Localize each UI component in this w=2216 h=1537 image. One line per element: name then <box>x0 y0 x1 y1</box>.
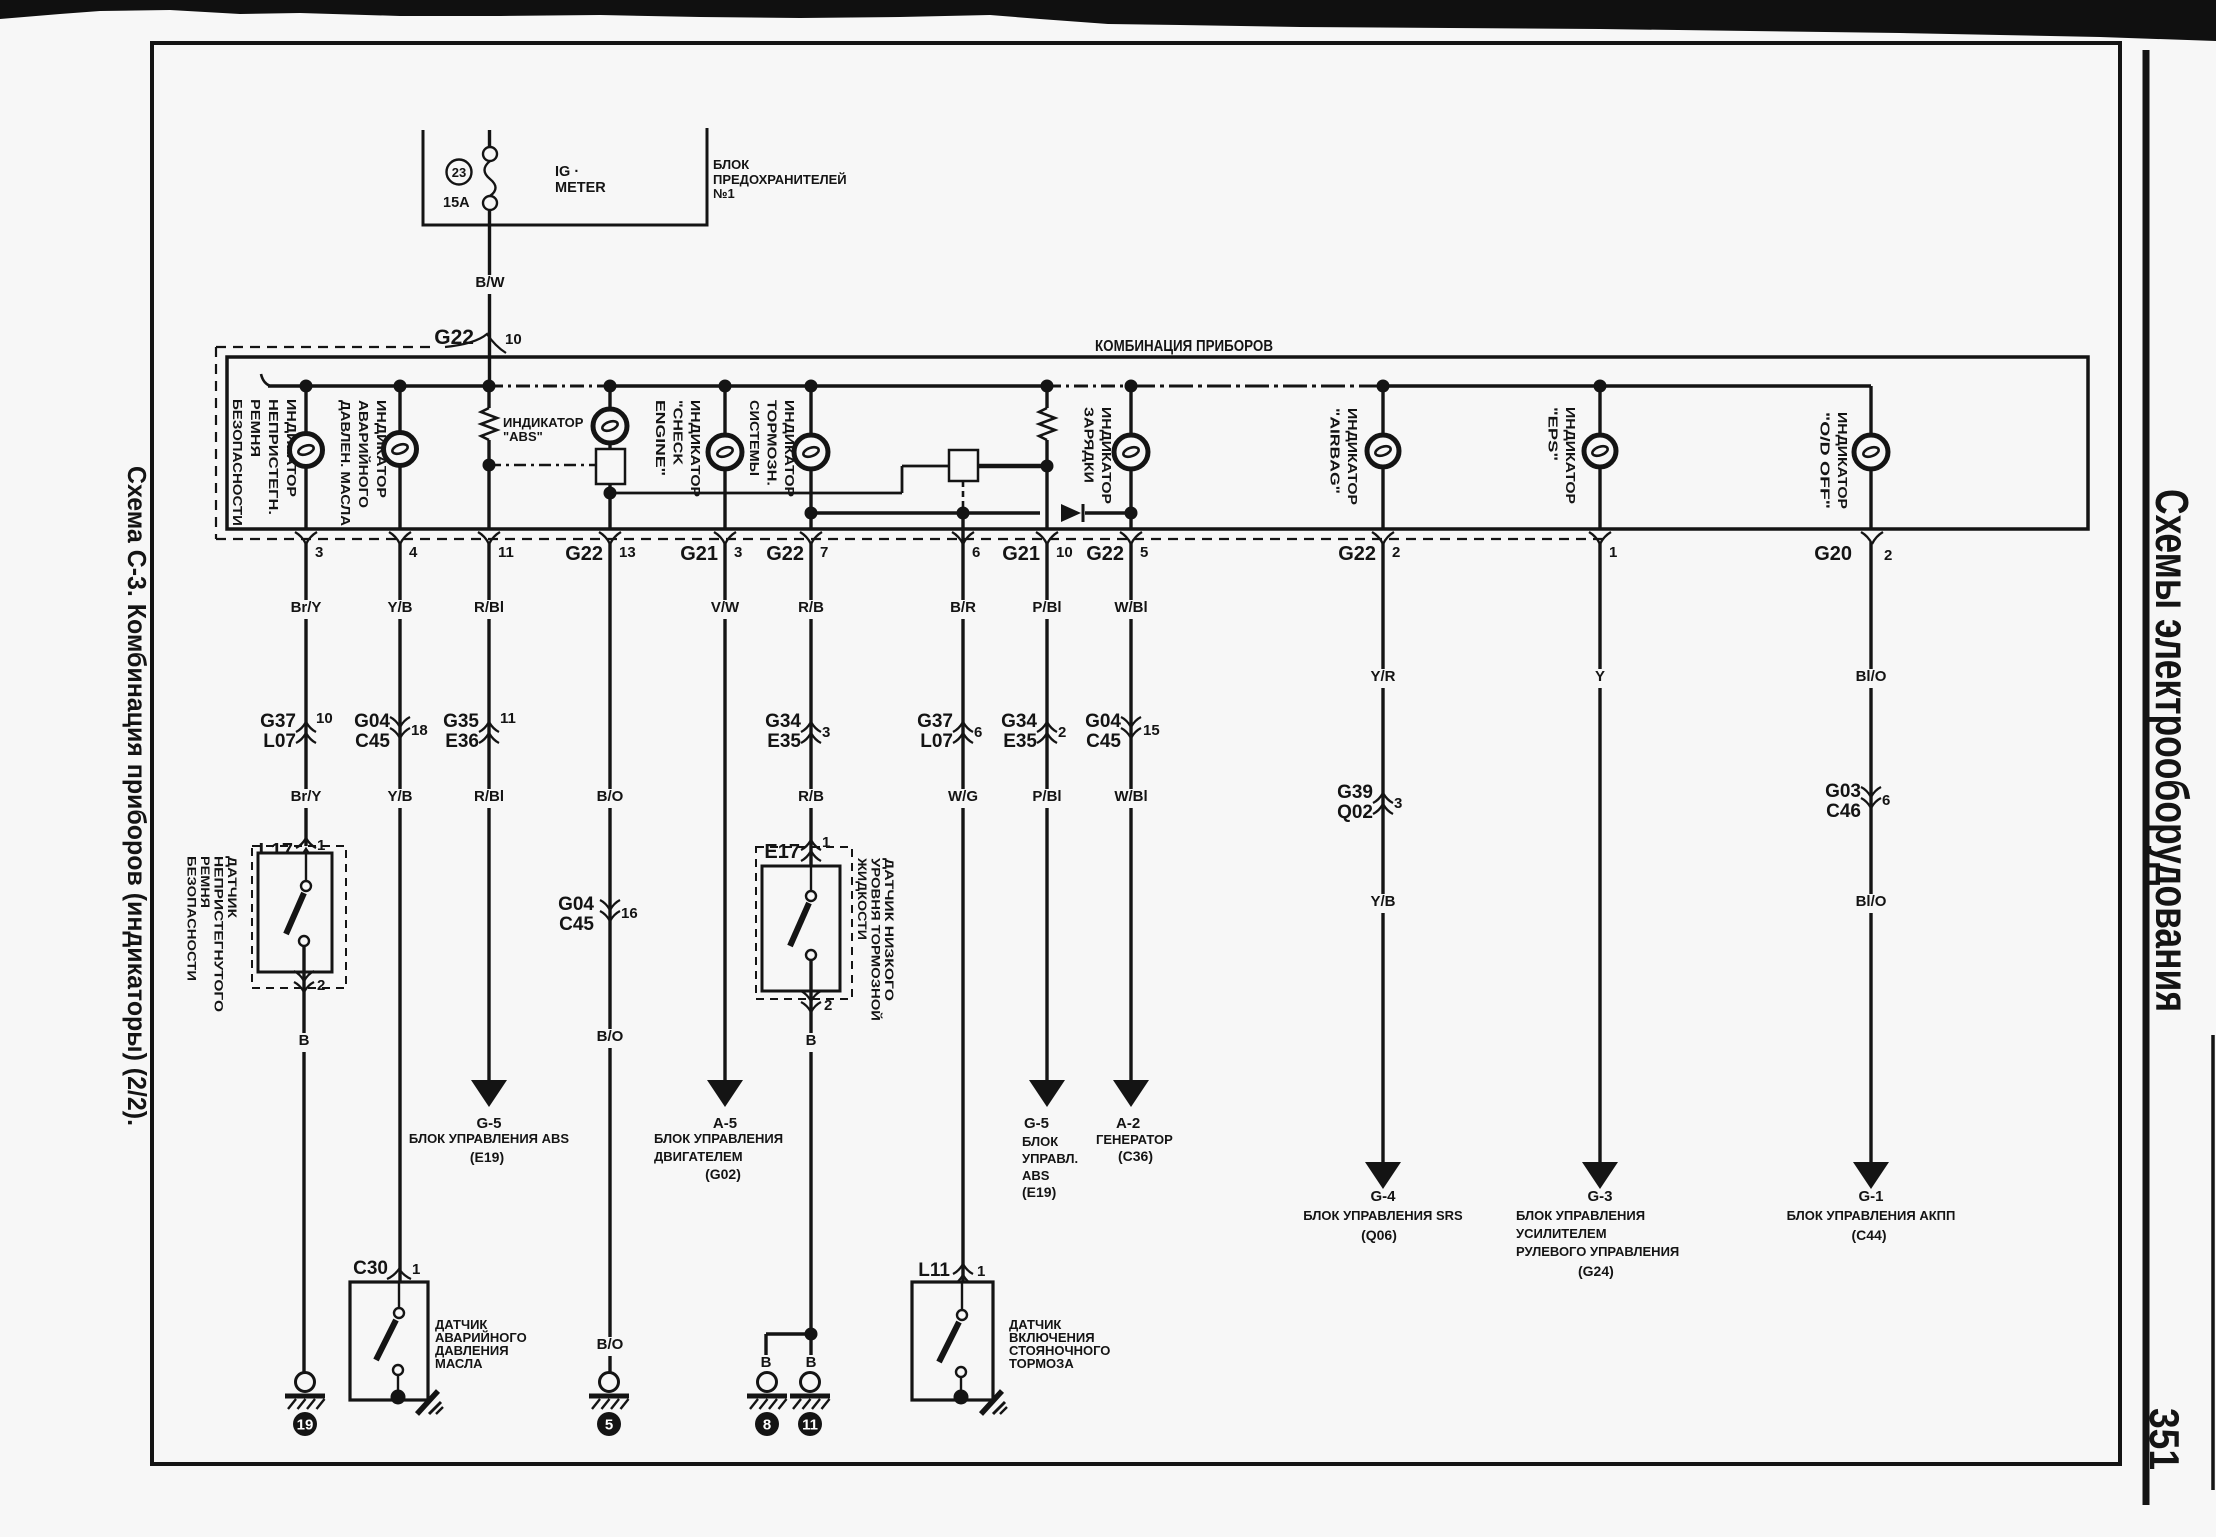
svg-text:G34: G34 <box>1001 711 1037 732</box>
label индикатор check engine <box>653 400 703 497</box>
diode to charging lamp <box>1061 504 1081 522</box>
svg-text:3: 3 <box>315 544 323 561</box>
svg-text:L07: L07 <box>920 731 953 752</box>
svg-text:P/Bl: P/Bl <box>1032 788 1061 805</box>
wire color R/B <box>794 789 827 808</box>
wire color Y/R <box>1366 669 1399 688</box>
svg-text:ТОРМОЗА: ТОРМОЗА <box>1009 1356 1074 1371</box>
indicator lamp check engine <box>723 386 726 435</box>
svg-text:G37: G37 <box>260 711 296 732</box>
svg-text:18: 18 <box>411 722 428 739</box>
svg-text:КОМБИНАЦИЯ ПРИБОРОВ: КОМБИНАЦИЯ ПРИБОРОВ <box>1095 338 1273 355</box>
svg-text:13: 13 <box>619 544 636 561</box>
svg-text:ИНДИКАТОР: ИНДИКАТОР <box>1563 407 1578 504</box>
instrument cluster inner box <box>227 357 2088 529</box>
svg-text:C46: C46 <box>1826 801 1861 822</box>
label индикатор тормозн системы <box>747 400 797 497</box>
svg-text:2: 2 <box>1058 724 1066 741</box>
svg-text:АВАРИЙНОГО: АВАРИЙНОГО <box>356 400 371 508</box>
indicator lamp EPS <box>1598 386 1601 435</box>
sidebar rule right of frame <box>2143 50 2150 1505</box>
svg-text:ИНДИКАТОР: ИНДИКАТОР <box>1345 408 1360 505</box>
svg-text:1: 1 <box>1609 544 1617 561</box>
wire color Y/B <box>1366 894 1399 913</box>
svg-text:1: 1 <box>977 1263 985 1280</box>
supply bus inside cluster <box>261 374 270 386</box>
svg-text:W/G: W/G <box>948 788 978 805</box>
svg-text:G22: G22 <box>1338 543 1376 565</box>
svg-text:W/Bl: W/Bl <box>1114 599 1147 616</box>
wire engine control circuit <box>723 542 726 1080</box>
svg-text:ABS: ABS <box>1022 1168 1050 1183</box>
svg-text:E36: E36 <box>445 731 479 752</box>
wire color W/G <box>946 789 979 808</box>
svg-text:Br/Y: Br/Y <box>291 788 322 805</box>
arrow to ABS unit <box>471 1080 507 1107</box>
svg-text:Схемы электрооборудования: Схемы электрооборудования <box>2146 489 2198 1012</box>
ABS resistor <box>487 386 490 408</box>
svg-text:23: 23 <box>452 165 466 180</box>
indicator lamp airbag <box>1381 386 1384 435</box>
indicator lamp O/D OFF <box>1869 386 1872 435</box>
sidebar title: Схемы электрооборудования <box>2146 489 2198 1012</box>
svg-text:11: 11 <box>500 710 516 727</box>
wire color Br/Y <box>285 789 327 808</box>
svg-text:W/Bl: W/Bl <box>1114 788 1147 805</box>
svg-text:(C44): (C44) <box>1851 1227 1886 1243</box>
label датчик непристегнутого ремня безопасности <box>185 856 240 1012</box>
svg-text:G20: G20 <box>1814 543 1852 565</box>
label датчик низкого уровня тормозной жидкости <box>855 857 896 1021</box>
svg-text:ТОРМОЗН.: ТОРМОЗН. <box>765 400 780 486</box>
ground 8 <box>758 1373 777 1392</box>
svg-text:ПРЕДОХРАНИТЕЛЕЙ: ПРЕДОХРАНИТЕЛЕЙ <box>713 172 847 187</box>
svg-text:B/O: B/O <box>597 788 624 805</box>
wire color W/Bl <box>1110 600 1152 619</box>
svg-text:C45: C45 <box>1086 731 1121 752</box>
svg-text:3: 3 <box>734 544 742 561</box>
svg-text:G-1: G-1 <box>1858 1188 1883 1205</box>
svg-text:19: 19 <box>297 1417 314 1434</box>
svg-text:Y: Y <box>1595 668 1605 685</box>
svg-text:R/B: R/B <box>798 599 824 616</box>
svg-text:3: 3 <box>1394 795 1402 812</box>
arrow to SRS unit <box>1365 1162 1401 1189</box>
indicator lamp ABS <box>608 386 611 409</box>
indicator lamp oil pressure <box>398 386 401 432</box>
svg-text:Q02: Q02 <box>1337 802 1373 823</box>
svg-text:Y/B: Y/B <box>387 788 412 805</box>
svg-text:G-4: G-4 <box>1370 1188 1396 1205</box>
wire brake fluid circuit <box>809 542 812 896</box>
svg-text:METER: METER <box>555 180 606 196</box>
svg-text:B/O: B/O <box>597 1336 624 1353</box>
svg-text:G22: G22 <box>1086 543 1124 565</box>
svg-text:ЖИДКОСТИ: ЖИДКОСТИ <box>855 857 869 940</box>
svg-text:L11: L11 <box>918 1260 950 1281</box>
svg-text:ДАТЧИК: ДАТЧИК <box>225 856 239 919</box>
wire color Y/B <box>384 789 417 808</box>
indicator lamp charging <box>1129 386 1132 435</box>
svg-text:"CHECK: "CHECK <box>671 400 686 466</box>
wire color P/Bl <box>1026 600 1068 619</box>
wire from fuse to cluster pin G22-10 <box>488 225 491 386</box>
svg-text:B: B <box>806 1354 817 1371</box>
svg-text:(Q06): (Q06) <box>1361 1227 1397 1243</box>
label индикатор EPS <box>1546 407 1579 504</box>
svg-text:"O/D OFF": "O/D OFF" <box>1818 412 1833 509</box>
wire color Br/Y <box>285 600 327 619</box>
node charging lamp bottom <box>1125 507 1138 520</box>
arrow to engine control unit <box>707 1080 743 1107</box>
wire stub into fuse box <box>488 130 491 147</box>
svg-text:10: 10 <box>316 710 333 727</box>
page number 351 <box>2141 1408 2188 1470</box>
svg-text:G22: G22 <box>565 543 603 565</box>
svg-text:G-5: G-5 <box>476 1115 501 1132</box>
charging resistor <box>1045 386 1048 408</box>
wire color B <box>296 1033 311 1052</box>
fuse box Блок предохранителей №1 <box>423 128 707 225</box>
wire link check-engine branch <box>610 492 902 495</box>
svg-text:ИНДИКАТОР: ИНДИКАТОР <box>1835 412 1850 509</box>
svg-text:РЕМНЯ: РЕМНЯ <box>248 399 263 457</box>
svg-text:11: 11 <box>802 1417 818 1434</box>
wire EPS circuit <box>1598 542 1601 1162</box>
wire color Y <box>1592 669 1607 688</box>
wire color B <box>758 1355 773 1374</box>
svg-text:8: 8 <box>763 1417 771 1434</box>
svg-text:Br/Y: Br/Y <box>291 599 322 616</box>
svg-text:БЛОК УПРАВЛЕНИЯ ABS: БЛОК УПРАВЛЕНИЯ ABS <box>409 1131 569 1146</box>
wire color R/Bl <box>468 789 510 808</box>
svg-text:БЛОК УПРАВЛЕНИЯ: БЛОК УПРАВЛЕНИЯ <box>1516 1208 1645 1223</box>
svg-text:УСИЛИТЕЛЕМ: УСИЛИТЕЛЕМ <box>1516 1226 1607 1241</box>
svg-text:"AIRBAG": "AIRBAG" <box>1328 408 1343 494</box>
svg-text:ИНДИКАТОР: ИНДИКАТОР <box>1099 407 1114 504</box>
svg-text:6: 6 <box>974 724 982 741</box>
svg-text:ИНДИКАТОР: ИНДИКАТОР <box>688 400 703 497</box>
node brake lamp to parking link <box>805 507 818 520</box>
svg-text:E35: E35 <box>767 731 801 752</box>
svg-text:B: B <box>761 1354 772 1371</box>
svg-text:2: 2 <box>317 977 325 994</box>
svg-text:C30: C30 <box>353 1258 388 1279</box>
svg-text:IG ·: IG · <box>555 164 579 180</box>
label индикатор зарядки <box>1082 407 1115 504</box>
svg-text:2: 2 <box>824 997 832 1014</box>
svg-text:(C36): (C36) <box>1118 1148 1153 1164</box>
svg-text:V/W: V/W <box>711 599 740 616</box>
wire ABS unit circuit 2 <box>1045 542 1048 1080</box>
svg-text:Bl/O: Bl/O <box>1856 893 1887 910</box>
svg-text:G21: G21 <box>1002 543 1040 565</box>
svg-text:НЕПРИСТЕГНУТОГО: НЕПРИСТЕГНУТОГО <box>212 856 226 1012</box>
wire color B/W <box>474 275 507 294</box>
svg-text:B/W: B/W <box>475 274 505 291</box>
svg-text:2: 2 <box>1884 547 1892 564</box>
svg-text:E17: E17 <box>764 841 800 863</box>
indicator lamp brake system <box>809 386 812 435</box>
wire parking brake circuit <box>961 513 964 1320</box>
svg-text:Схема С-3. Комбинация приборов: Схема С-3. Комбинация приборов (индикато… <box>122 466 152 1126</box>
wire generator circuit <box>1129 542 1132 1080</box>
svg-text:БЛОК УПРАВЛЕНИЯ: БЛОК УПРАВЛЕНИЯ <box>654 1131 783 1146</box>
node parking brake wire to link <box>957 507 970 520</box>
svg-text:УПРАВЛ.: УПРАВЛ. <box>1022 1151 1078 1166</box>
svg-text:НЕПРИСТЕГН.: НЕПРИСТЕГН. <box>266 399 281 515</box>
node below ABS connector block <box>604 487 617 500</box>
svg-text:E35: E35 <box>1003 731 1037 752</box>
label индикатор непристегн ремня безопасности <box>230 399 299 526</box>
svg-text:4: 4 <box>409 544 418 561</box>
svg-text:ЗАРЯДКИ: ЗАРЯДКИ <box>1082 407 1097 483</box>
svg-text:G04: G04 <box>1085 711 1121 732</box>
wire color B <box>804 1033 819 1052</box>
indicator lamp seat belt <box>304 386 307 433</box>
svg-text:G03: G03 <box>1825 781 1861 802</box>
svg-text:ENGINE": ENGINE" <box>653 400 668 476</box>
svg-text:(G02): (G02) <box>705 1166 741 1182</box>
svg-text:РЕМНЯ: РЕМНЯ <box>198 856 212 908</box>
wire AT control circuit <box>1869 542 1872 1162</box>
svg-text:"EPS": "EPS" <box>1546 407 1561 461</box>
svg-text:6: 6 <box>1882 792 1890 809</box>
arrow to ABS unit 2 <box>1029 1080 1065 1107</box>
wire color R/Bl <box>468 600 510 619</box>
svg-text:Bl/O: Bl/O <box>1856 668 1887 685</box>
svg-text:ГЕНЕРАТОР: ГЕНЕРАТОР <box>1096 1132 1173 1147</box>
svg-text:G34: G34 <box>765 711 801 732</box>
svg-text:G37: G37 <box>917 711 953 732</box>
svg-text:G-5: G-5 <box>1024 1115 1049 1132</box>
svg-text:B: B <box>299 1032 310 1049</box>
svg-text:R/Bl: R/Bl <box>474 599 504 616</box>
svg-text:БЛОК: БЛОК <box>1022 1134 1058 1149</box>
svg-text:R/B: R/B <box>798 788 824 805</box>
svg-text:6: 6 <box>972 544 980 561</box>
wire color Bl/O <box>1850 669 1892 688</box>
wire color B <box>804 1355 819 1374</box>
svg-text:(E19): (E19) <box>470 1149 504 1165</box>
wire color V/W <box>708 600 741 619</box>
svg-text:Y/B: Y/B <box>387 599 412 616</box>
svg-text:1: 1 <box>412 1261 420 1278</box>
svg-text:A-5: A-5 <box>713 1115 737 1132</box>
svg-text:G21: G21 <box>680 543 718 565</box>
arrow to power steering unit <box>1582 1162 1618 1189</box>
node on charging resistor wire <box>1041 460 1054 473</box>
svg-text:15: 15 <box>1143 722 1160 739</box>
svg-text:Y/R: Y/R <box>1370 668 1395 685</box>
svg-text:СИСТЕМЫ: СИСТЕМЫ <box>747 400 762 476</box>
svg-text:L07: L07 <box>263 731 296 752</box>
svg-text:G04: G04 <box>558 894 594 915</box>
svg-text:ИНДИКАТОР: ИНДИКАТОР <box>503 415 584 430</box>
svg-text:БЛОК УПРАВЛЕНИЯ АКПП: БЛОК УПРАВЛЕНИЯ АКПП <box>1787 1208 1956 1223</box>
svg-text:2: 2 <box>1392 544 1400 561</box>
node parking ground branch <box>805 1328 818 1341</box>
label индикатор аварийного давлен масла <box>338 400 389 527</box>
wire check engine circuit <box>608 542 611 1372</box>
svg-text:БЕЗОПАСНОСТИ: БЕЗОПАСНОСТИ <box>230 399 245 526</box>
wire color B/O <box>594 1029 627 1048</box>
svg-text:11: 11 <box>498 544 514 561</box>
svg-text:ДАТЧИК НИЗКОГО: ДАТЧИК НИЗКОГО <box>882 858 896 1001</box>
wire ABS control circuit <box>487 542 490 1080</box>
svg-text:B/O: B/O <box>597 1028 624 1045</box>
wire color B/R <box>946 600 979 619</box>
connector block below ABS lamp <box>608 443 611 449</box>
svg-text:7: 7 <box>820 544 828 561</box>
svg-text:10: 10 <box>505 331 522 348</box>
svg-text:10: 10 <box>1056 544 1073 561</box>
wire color B/O <box>594 1337 627 1356</box>
svg-text:G-3: G-3 <box>1587 1188 1612 1205</box>
svg-text:БЛОК УПРАВЛЕНИЯ SRS: БЛОК УПРАВЛЕНИЯ SRS <box>1303 1208 1463 1223</box>
svg-text:B: B <box>806 1032 817 1049</box>
svg-text:G22: G22 <box>766 543 804 565</box>
svg-text:G35: G35 <box>443 711 479 732</box>
wire color W/Bl <box>1110 789 1152 808</box>
wire color B/O <box>594 789 627 808</box>
fuse number circle 23 <box>447 160 472 185</box>
svg-text:R/Bl: R/Bl <box>474 788 504 805</box>
svg-text:C45: C45 <box>355 731 390 752</box>
svg-text:G39: G39 <box>1337 782 1373 803</box>
connector block brake/charge branch <box>949 450 978 481</box>
svg-text:РУЛЕВОГО УПРАВЛЕНИЯ: РУЛЕВОГО УПРАВЛЕНИЯ <box>1516 1244 1679 1259</box>
svg-text:ДВИГАТЕЛЕМ: ДВИГАТЕЛЕМ <box>654 1149 743 1164</box>
label индикатор O/D OFF <box>1818 412 1851 509</box>
node ABS branch <box>483 459 496 472</box>
svg-text:БЕЗОПАСНОСТИ: БЕЗОПАСНОСТИ <box>185 856 199 981</box>
label индикатор airbag <box>1328 408 1361 505</box>
svg-text:P/Bl: P/Bl <box>1032 599 1061 616</box>
svg-text:ДАВЛЕН. МАСЛА: ДАВЛЕН. МАСЛА <box>338 400 353 527</box>
fuse 23 15A symbol <box>483 147 497 161</box>
svg-text:G04: G04 <box>354 711 390 732</box>
svg-text:B/R: B/R <box>950 599 976 616</box>
wire SRS circuit <box>1381 542 1384 1162</box>
left margin title: Схема С-3 <box>122 466 152 1126</box>
sidebar short rule near page number <box>2211 1035 2215 1490</box>
arrow to AT control unit <box>1853 1162 1889 1189</box>
svg-text:БЛОК: БЛОК <box>713 157 749 172</box>
wire color Y/B <box>384 600 417 619</box>
svg-text:Y/B: Y/B <box>1370 893 1395 910</box>
wire oil pressure circuit <box>398 542 401 1324</box>
scan artifact: torn black band along top edge <box>0 0 2216 41</box>
wire seat belt circuit <box>304 542 307 846</box>
svg-text:A-2: A-2 <box>1116 1115 1140 1132</box>
svg-text:15A: 15A <box>443 195 470 211</box>
svg-text:16: 16 <box>621 905 638 922</box>
svg-text:(E19): (E19) <box>1022 1184 1056 1200</box>
svg-text:5: 5 <box>1140 544 1148 561</box>
ground 19 <box>296 1373 315 1392</box>
wire color R/B <box>794 600 827 619</box>
svg-text:1: 1 <box>822 834 830 851</box>
svg-text:"ABS": "ABS" <box>503 429 543 444</box>
svg-text:№1: №1 <box>713 186 735 201</box>
svg-text:C45: C45 <box>559 914 594 935</box>
svg-text:(G24): (G24) <box>1578 1263 1614 1279</box>
arrow to generator <box>1113 1080 1149 1107</box>
wire color P/Bl <box>1026 789 1068 808</box>
wire color Bl/O <box>1850 894 1892 913</box>
ground 11 <box>801 1373 820 1392</box>
svg-text:5: 5 <box>605 1417 613 1434</box>
svg-text:УРОВНЯ ТОРМОЗНОЙ: УРОВНЯ ТОРМОЗНОЙ <box>869 858 884 1021</box>
ground 5 <box>600 1373 619 1392</box>
svg-text:МАСЛА: МАСЛА <box>435 1356 483 1371</box>
instrument cluster dashed outline <box>215 347 217 539</box>
svg-text:351: 351 <box>2141 1408 2188 1470</box>
svg-text:3: 3 <box>822 724 830 741</box>
